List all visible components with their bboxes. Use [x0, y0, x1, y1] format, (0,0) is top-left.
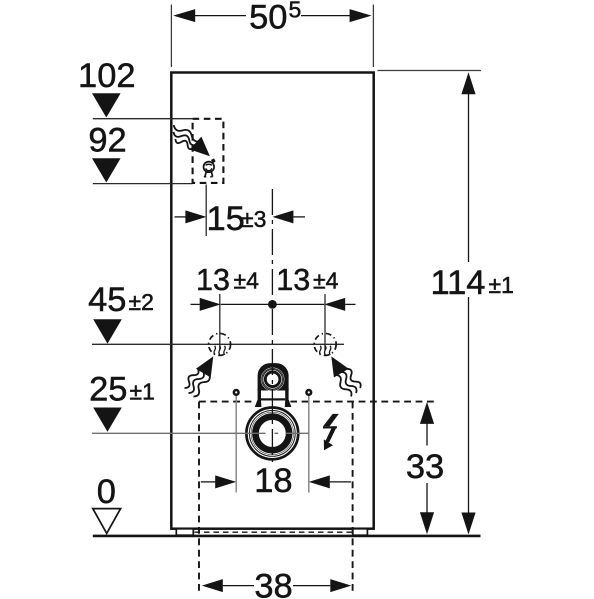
wire level line 45: [92, 343, 344, 345]
ground line: [93, 535, 481, 538]
dashed zone box top: [193, 119, 224, 183]
wire level line 92: [93, 183, 193, 185]
svg-text:25: 25: [89, 371, 127, 409]
base plate dashed mid line: [195, 531, 353, 533]
lightning bolt: [323, 414, 339, 450]
dashed install zone left edge: [198, 402, 200, 594]
level marker 45: [93, 319, 122, 343]
svg-text:±4: ±4: [234, 268, 260, 294]
arrowhead left-pointing at 15: [272, 210, 293, 223]
arrowhead right-pointing at 15: [185, 210, 206, 223]
dimension 50.5 line: [194, 15, 246, 17]
wire 114 top extension: [378, 70, 482, 72]
water arrow top: [190, 137, 216, 163]
wire level line 102: [93, 118, 193, 120]
wire top extension line right: [372, 5, 374, 68]
svg-text:45: 45: [88, 281, 126, 319]
svg-text:92: 92: [88, 122, 126, 160]
water arrow right: [324, 352, 349, 378]
level marker 92: [92, 158, 121, 182]
dimension 33: [426, 423, 428, 446]
dashed install zone right edge: [352, 402, 354, 594]
svg-text:50: 50: [249, 0, 287, 37]
dimension 18: [201, 481, 216, 483]
dashed circle right: [314, 333, 336, 355]
wire extension from tap icon: [205, 185, 207, 237]
svg-text:102: 102: [78, 57, 136, 95]
tap icon: [204, 159, 216, 177]
arrowhead up of 114: [461, 72, 475, 94]
wire top extension line left: [170, 5, 172, 68]
dimension 38: [202, 579, 223, 592]
level marker 0 open triangle: [93, 509, 121, 534]
svg-text:18: 18: [254, 462, 292, 500]
level line 25 crosshair through drain: [92, 432, 266, 434]
water arrow left: [196, 352, 221, 378]
svg-text:±1: ±1: [489, 272, 514, 298]
svg-text:±3: ±3: [241, 206, 266, 232]
svg-text:±4: ±4: [313, 268, 339, 294]
panel outline: [171, 73, 373, 529]
node center dot: [268, 300, 277, 309]
arrowhead left of 50.5: [173, 9, 195, 22]
arrowhead right of 50.5: [350, 9, 372, 22]
svg-text:15: 15: [207, 200, 245, 238]
bolt circle right: [305, 389, 312, 396]
svg-text:33: 33: [406, 448, 444, 486]
dimension 114 line: [468, 93, 470, 262]
dimension 13/13 line: [191, 303, 200, 305]
svg-text:5: 5: [289, 0, 302, 23]
base plate right foot: [353, 529, 368, 535]
svg-text:38: 38: [254, 568, 292, 599]
level marker 102: [92, 93, 121, 117]
svg-text:13: 13: [276, 263, 310, 297]
dashed install zone top edge + 33 extension: [199, 401, 438, 403]
base plate left foot: [176, 529, 193, 535]
center line (dash-dot): [271, 189, 273, 462]
wire stem right bolt: [308, 394, 310, 493]
dimension 15 line left tail: [175, 216, 187, 218]
svg-text:±1: ±1: [130, 379, 155, 405]
arrowhead down of 114: [461, 513, 475, 535]
wire extension right 13: [324, 294, 326, 350]
wire stem left bolt: [235, 394, 237, 493]
bolt circle left: [233, 389, 240, 396]
svg-text:13: 13: [196, 263, 230, 297]
svg-text:114: 114: [430, 264, 485, 302]
supply fitting U1: [255, 363, 292, 407]
wire extension left 13: [219, 294, 221, 350]
svg-text:±2: ±2: [129, 289, 154, 315]
drain pipe: [245, 406, 299, 460]
level marker 25: [93, 408, 122, 432]
dimension 15 line right tail: [293, 216, 305, 218]
svg-text:0: 0: [97, 473, 116, 511]
dashed circle left: [209, 333, 231, 355]
